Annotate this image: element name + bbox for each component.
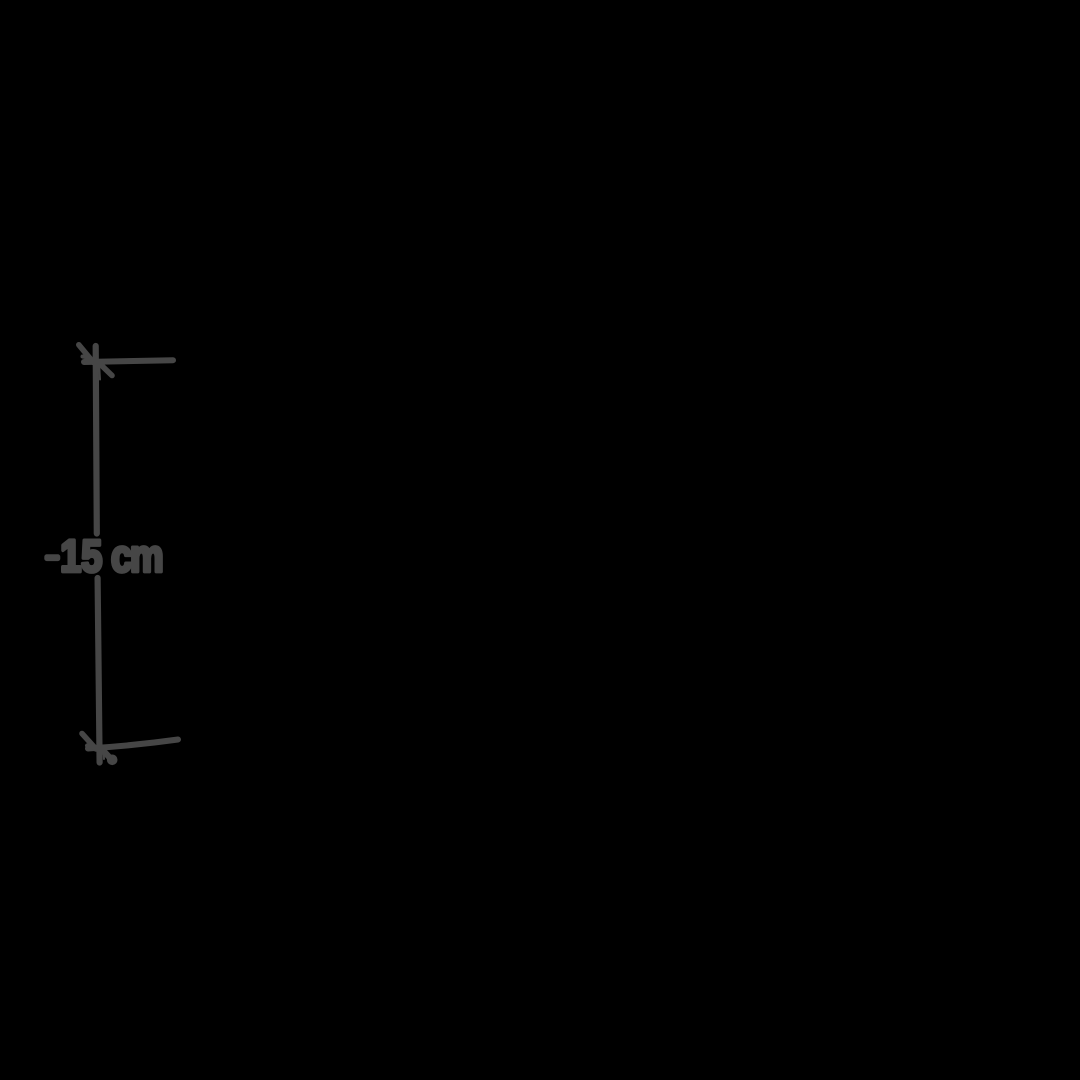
top arrowhead left tick	[83, 357, 89, 358]
dimension label "15 cm"	[60, 530, 163, 581]
bottom leader line	[88, 740, 178, 749]
top arrowhead thin spur	[99, 363, 100, 380]
dimension extent line lower segment	[98, 578, 100, 763]
bottom arrowhead left tick	[87, 746, 92, 748]
dimension extent line upper segment	[96, 346, 97, 534]
bottom arrowhead thin spur	[103, 752, 106, 759]
svg-text:15 cm: 15 cm	[60, 530, 163, 581]
top leader line	[84, 360, 173, 362]
base serif of digit 1	[61, 566, 79, 572]
bottom arrowhead end blob	[107, 755, 118, 766]
bottom arrowhead slash upper-left	[82, 734, 96, 750]
top arrowhead slash lower-right	[99, 363, 113, 376]
bottom arrowhead slash lower-right	[105, 752, 111, 759]
dimension label minus sign	[44, 554, 60, 561]
top arrowhead slash upper-left	[79, 345, 94, 363]
